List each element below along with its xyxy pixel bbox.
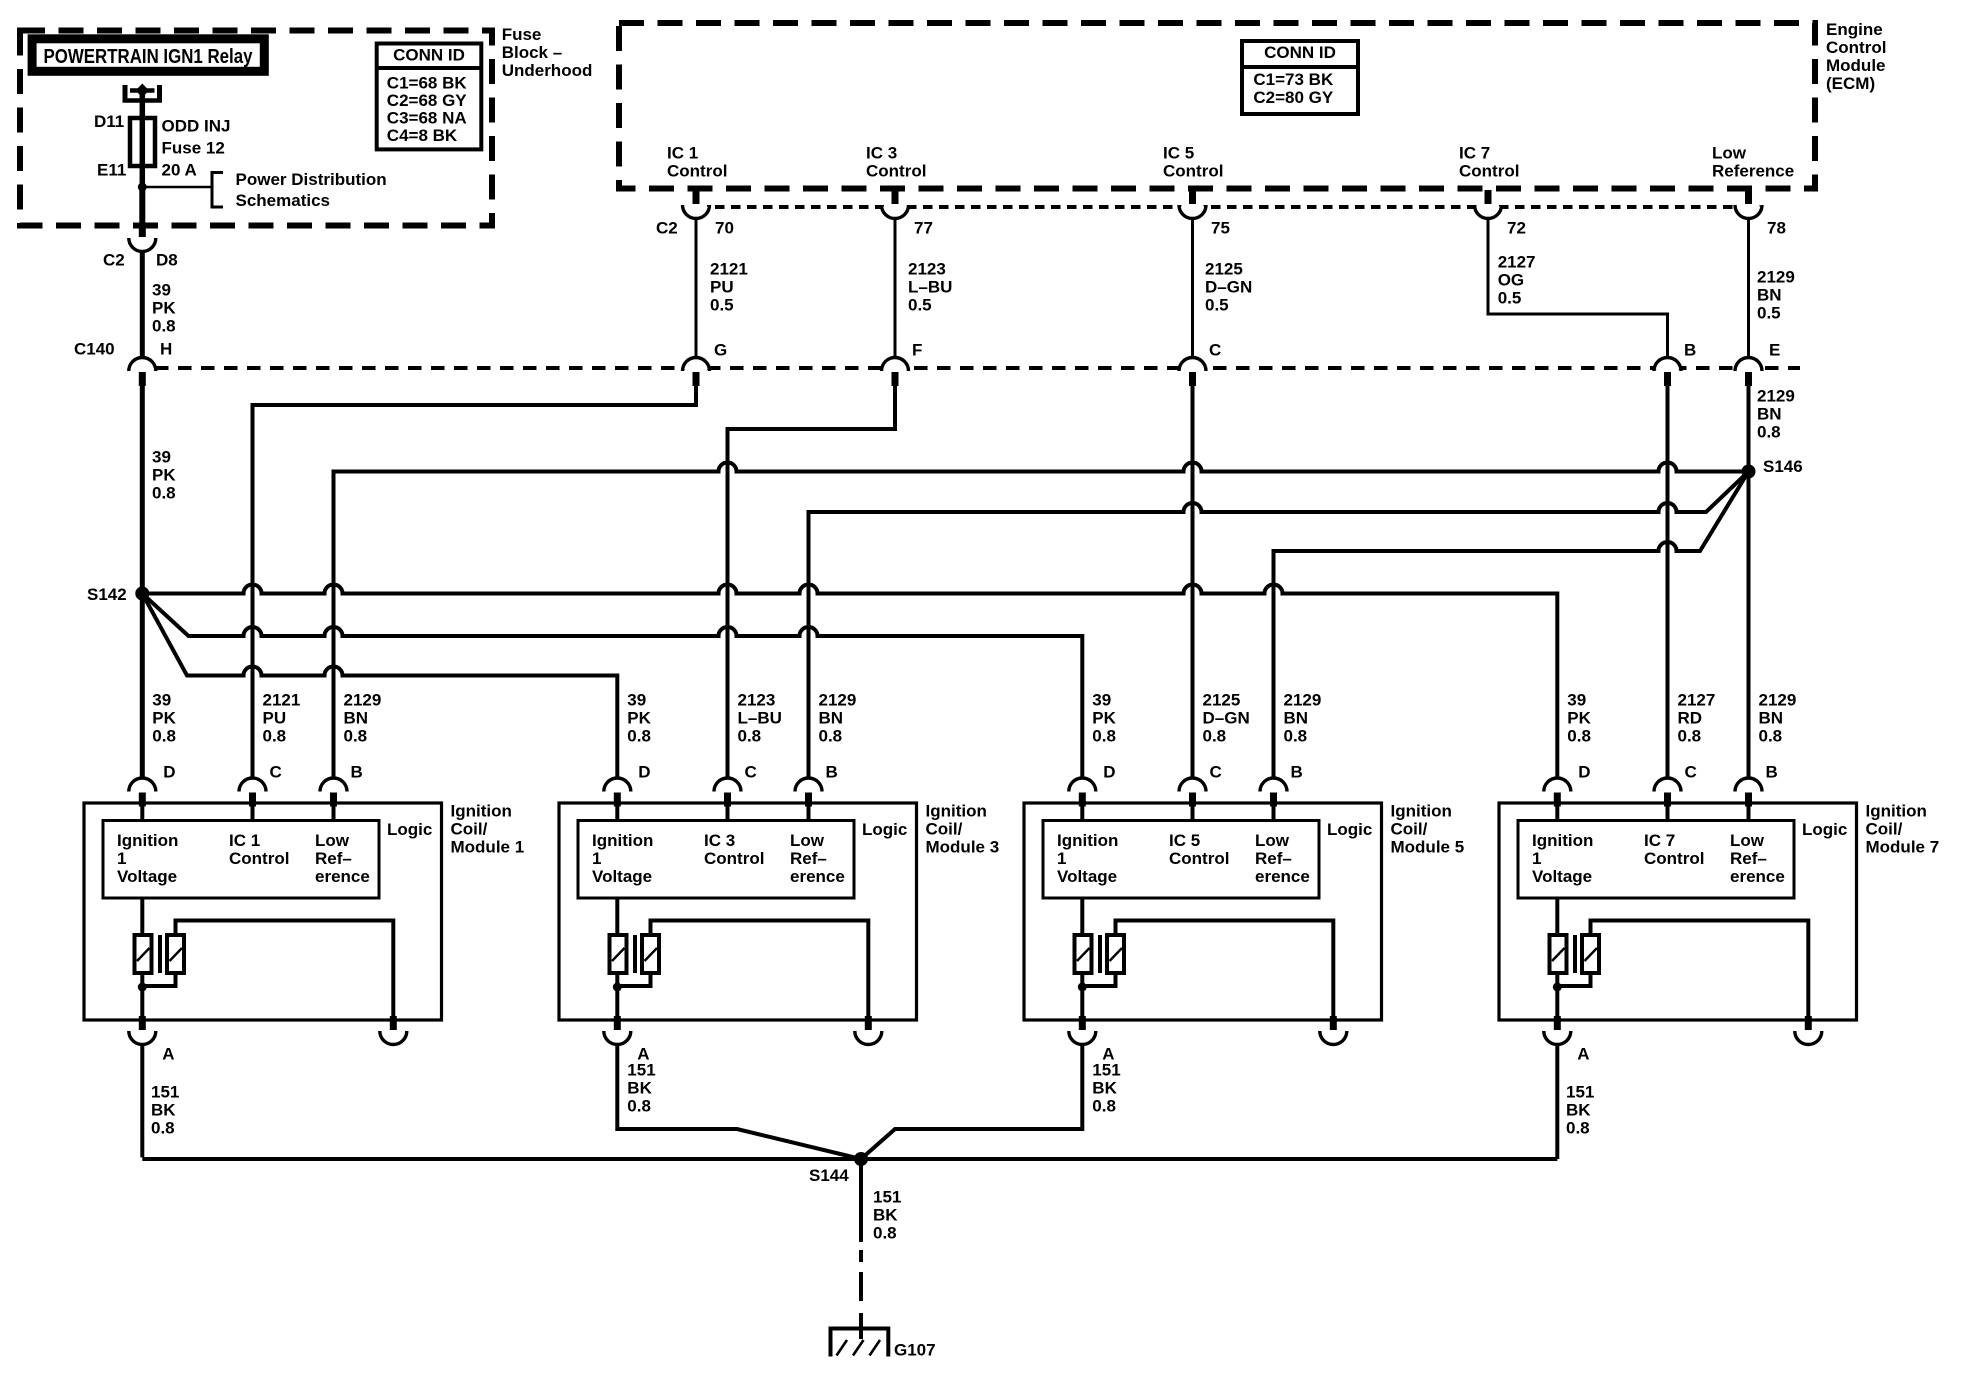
svg-text:erence: erence [315, 867, 370, 886]
ignition coil/module 7 box [1499, 803, 1857, 1020]
svg-text:Ignition: Ignition [1532, 831, 1593, 850]
svg-text:IC 7: IC 7 [1459, 143, 1490, 162]
svg-text:PK: PK [1567, 708, 1591, 727]
svg-text:C: C [1210, 762, 1222, 781]
module 3 internal junction dot [613, 983, 622, 992]
svg-text:Coil/: Coil/ [451, 819, 488, 838]
wire 151 BK 0.8 (S144 to ground) [859, 1159, 863, 1242]
svg-text:2125: 2125 [1205, 259, 1243, 278]
svg-text:Ignition: Ignition [592, 831, 653, 850]
wire 151 BK 0.8 (module1 A to S144 bus) [140, 1046, 144, 1157]
svg-text:1: 1 [117, 849, 126, 868]
svg-text:0.5: 0.5 [710, 295, 734, 314]
svg-text:Power Distribution: Power Distribution [236, 170, 387, 189]
svg-text:D8: D8 [156, 250, 178, 269]
svg-text:72: 72 [1507, 218, 1526, 237]
module 5 pin D connector [1069, 777, 1096, 791]
module 3 wire secondary to bottom-right pin [651, 921, 869, 1019]
wire 2121 PU 0.5 (IC1 to C140 G) [695, 220, 698, 356]
module 1 coil secondary winding [167, 935, 184, 973]
svg-text:Logic: Logic [1327, 820, 1372, 839]
engine control module dashed enclosure [619, 23, 1815, 189]
svg-text:BK: BK [1092, 1078, 1117, 1097]
wire 2129 BN 0.8 (S146 to module7 pin B) [1747, 472, 1751, 778]
svg-text:IC 1: IC 1 [229, 831, 260, 850]
wire 2127 RD 0.8 (C140 B to module7 pin C) [1666, 386, 1670, 777]
wire 151 BK 0.8 (module5 A to S144) [861, 1046, 1082, 1159]
svg-text:39: 39 [152, 280, 171, 299]
module 3 coil secondary winding [642, 935, 659, 973]
module 7 pin A connector [1544, 1033, 1571, 1047]
svg-text:Coil/: Coil/ [1391, 819, 1428, 838]
svg-text:BK: BK [873, 1205, 898, 1224]
svg-text:Module 7: Module 7 [1866, 837, 1940, 856]
module 1 internal pin stubs [140, 805, 144, 821]
svg-text:39: 39 [1092, 690, 1111, 709]
module 5 wire secondary to junction [1082, 973, 1115, 986]
ignition coil/module 1 box [84, 803, 442, 1020]
svg-text:Control: Control [229, 849, 289, 868]
svg-text:Reference: Reference [1712, 161, 1794, 180]
fuse block underhood dashed enclosure [20, 31, 492, 226]
svg-text:151: 151 [151, 1082, 179, 1101]
svg-text:C: C [1209, 340, 1221, 359]
module 7 wire logic to coil primary [1555, 898, 1559, 935]
CONN ID table (fuse block) [377, 44, 482, 150]
module 3 logic block box [578, 821, 854, 899]
wire 39 PK 0.8 bus (S142 to module3 pin D) [142, 594, 617, 778]
module 1 pin D connector [129, 777, 156, 791]
svg-text:C140: C140 [74, 339, 115, 358]
wire 151 BK 0.8 (module3 A to S144) [617, 1046, 861, 1159]
svg-text:BN: BN [1757, 285, 1782, 304]
svg-text:0.8: 0.8 [873, 1223, 897, 1242]
module 5 coil secondary winding [1107, 935, 1124, 973]
C140 pin G connector [683, 356, 710, 370]
svg-text:Control: Control [667, 161, 727, 180]
module 1 internal junction dot [138, 983, 147, 992]
svg-text:PK: PK [152, 298, 176, 317]
svg-text:Voltage: Voltage [592, 867, 652, 886]
svg-text:IC 5: IC 5 [1169, 831, 1200, 850]
svg-text:2121: 2121 [263, 690, 301, 709]
module 3 internal pin stubs [615, 805, 619, 821]
svg-text:Ref–: Ref– [315, 849, 352, 868]
svg-text:Logic: Logic [862, 820, 907, 839]
svg-text:0.8: 0.8 [151, 1118, 175, 1137]
svg-text:(ECM): (ECM) [1826, 74, 1875, 93]
module 3 coil core [633, 935, 637, 973]
svg-text:Low: Low [315, 831, 350, 850]
svg-text:D–GN: D–GN [1205, 277, 1252, 296]
svg-text:Logic: Logic [1802, 820, 1847, 839]
svg-text:D: D [1578, 762, 1590, 781]
svg-text:Low: Low [790, 831, 825, 850]
ECM pin 77 connector [882, 207, 909, 220]
svg-text:D: D [638, 762, 650, 781]
ECM pin 75 connector [1179, 207, 1206, 220]
svg-text:BK: BK [1566, 1100, 1591, 1119]
svg-text:C: C [270, 762, 282, 781]
svg-text:Logic: Logic [387, 820, 432, 839]
svg-text:0.8: 0.8 [152, 726, 176, 745]
module 5 internal junction dot [1078, 983, 1087, 992]
svg-text:Voltage: Voltage [117, 867, 177, 886]
svg-text:0.8: 0.8 [152, 316, 176, 335]
svg-text:Underhood: Underhood [502, 61, 593, 80]
svg-text:Ignition: Ignition [451, 801, 512, 820]
svg-text:0.8: 0.8 [627, 726, 651, 745]
module 5 wire logic to coil primary [1080, 898, 1084, 935]
svg-text:S146: S146 [1763, 457, 1803, 476]
svg-text:Ignition: Ignition [1057, 831, 1118, 850]
svg-text:G: G [714, 340, 727, 359]
svg-text:0.8: 0.8 [627, 1096, 651, 1115]
module 7 pin B connector [1735, 777, 1762, 791]
svg-text:2129: 2129 [1757, 267, 1795, 286]
module 3 pin B connector [795, 777, 822, 791]
module 7 coil primary winding [1550, 935, 1567, 973]
junction dot below fuse [138, 183, 147, 192]
module 7 coil core [1573, 935, 1577, 973]
svg-text:20 A: 20 A [162, 160, 197, 179]
svg-text:C3=68 NA: C3=68 NA [387, 108, 467, 127]
module 5 internal pin stubs [1080, 805, 1084, 821]
svg-text:C4=8 BK: C4=8 BK [387, 126, 458, 145]
svg-text:C2=68 GY: C2=68 GY [387, 91, 468, 110]
C140 pin H connector [129, 356, 156, 370]
module 5 logic block box [1043, 821, 1319, 899]
svg-text:C: C [1685, 762, 1697, 781]
wire relay to fuse (thick) [140, 93, 146, 187]
wire 2129 BN 0.8 (C140 E to splice S146) [1747, 386, 1751, 472]
module 3 pin C connector [714, 777, 741, 791]
svg-text:Control: Control [866, 161, 926, 180]
svg-text:2121: 2121 [710, 259, 748, 278]
svg-text:BN: BN [1757, 404, 1782, 423]
C140 pin C connector [1179, 356, 1206, 370]
svg-text:Ref–: Ref– [790, 849, 827, 868]
svg-text:2123: 2123 [908, 259, 946, 278]
wire 151 BK 0.8 ground bus (module1 to module7) [142, 1157, 1557, 1161]
svg-text:Ref–: Ref– [1255, 849, 1292, 868]
svg-text:Schematics: Schematics [236, 191, 331, 210]
svg-text:0.5: 0.5 [1498, 288, 1522, 307]
module 5 coil core [1098, 935, 1102, 973]
svg-text:151: 151 [627, 1060, 655, 1079]
svg-text:B: B [1684, 340, 1696, 359]
svg-text:D11: D11 [94, 112, 124, 131]
svg-text:BN: BN [344, 708, 369, 727]
ECM connector C2 dotted line [699, 205, 1760, 209]
svg-text:0.5: 0.5 [1205, 295, 1229, 314]
svg-text:151: 151 [1092, 1060, 1120, 1079]
svg-text:CONN ID: CONN ID [1264, 43, 1336, 62]
module 1 bottom-right pin connector [380, 1033, 407, 1047]
svg-text:BN: BN [1284, 708, 1309, 727]
svg-text:H: H [160, 339, 172, 358]
module 7 internal junction dot [1553, 983, 1562, 992]
svg-text:0.8: 0.8 [344, 726, 368, 745]
module 1 coil primary winding [135, 935, 152, 973]
svg-text:0.8: 0.8 [738, 726, 762, 745]
svg-text:Ignition: Ignition [926, 801, 987, 820]
svg-text:0.5: 0.5 [908, 295, 932, 314]
module 7 pin D connector [1544, 777, 1571, 791]
svg-text:C2: C2 [103, 250, 125, 269]
svg-text:RD: RD [1678, 708, 1703, 727]
svg-text:IC 7: IC 7 [1644, 831, 1675, 850]
svg-text:Control: Control [1163, 161, 1223, 180]
svg-text:A: A [1577, 1044, 1589, 1063]
svg-text:2123: 2123 [738, 690, 776, 709]
svg-text:Block –: Block – [502, 43, 562, 62]
svg-text:39: 39 [627, 690, 646, 709]
wire to power distribution reference [142, 186, 212, 189]
ECM pin 72 connector [1475, 207, 1502, 220]
svg-text:D: D [1103, 762, 1115, 781]
svg-text:Control: Control [1459, 161, 1519, 180]
svg-text:ODD INJ: ODD INJ [162, 116, 231, 135]
CONN ID table (ECM) [1242, 41, 1358, 114]
svg-text:Low: Low [1730, 831, 1765, 850]
wire 2129 BN 0.8 bus (S146 to module3 pin B) [809, 472, 1749, 778]
wire 2121 PU 0.8 (C140 G to module1 pin C) [253, 386, 697, 777]
module 7 wire secondary to junction [1557, 973, 1590, 986]
svg-text:D: D [163, 762, 175, 781]
wire 39 PK 0.8 (S142 to module1 pin D) [140, 594, 145, 778]
svg-text:B: B [1766, 762, 1778, 781]
svg-text:0.8: 0.8 [1678, 726, 1702, 745]
svg-text:IC 3: IC 3 [866, 143, 897, 162]
svg-text:2129: 2129 [1759, 690, 1797, 709]
svg-text:Coil/: Coil/ [1866, 819, 1903, 838]
svg-text:75: 75 [1211, 218, 1230, 237]
C140 pin F connector [882, 356, 909, 370]
splice S144 [854, 1152, 868, 1166]
module 1 coil core [158, 935, 162, 973]
module 3 pin D connector [604, 777, 631, 791]
wire 2125 D-GN 0.5 (IC5 to C140 C) [1191, 220, 1194, 356]
ignition coil/module 5 box [1024, 803, 1382, 1020]
svg-text:Ignition: Ignition [1866, 801, 1927, 820]
svg-text:IC 3: IC 3 [704, 831, 735, 850]
module 1 wire primary to pin A [140, 973, 144, 1019]
dashed wire to ground G107 [859, 1250, 863, 1262]
module 1 logic block box [103, 821, 379, 899]
svg-text:Module 3: Module 3 [926, 837, 1000, 856]
svg-text:A: A [162, 1044, 174, 1063]
svg-text:39: 39 [152, 447, 171, 466]
svg-text:Module: Module [1826, 56, 1886, 75]
svg-text:Ignition: Ignition [117, 831, 178, 850]
module 1 wire logic to coil primary [140, 898, 144, 935]
svg-text:BK: BK [151, 1100, 176, 1119]
svg-text:78: 78 [1767, 218, 1786, 237]
svg-text:1: 1 [1532, 849, 1541, 868]
module 7 pin C connector [1654, 777, 1681, 791]
fuse F12: ODD INJ Fuse 12 20 A [130, 118, 155, 166]
module 3 wire primary to pin A [615, 973, 619, 1019]
module 3 pin A connector [604, 1033, 631, 1047]
wire 2123 L-BU 0.8 (C140 F to module3 pin C) [728, 386, 896, 777]
svg-text:2129: 2129 [1757, 386, 1795, 405]
connector C140 dashed line [155, 366, 1800, 370]
svg-text:erence: erence [790, 867, 845, 886]
svg-text:0.8: 0.8 [1567, 726, 1591, 745]
svg-text:BN: BN [1759, 708, 1784, 727]
svg-text:0.5: 0.5 [1757, 303, 1781, 322]
ECM pin 78 connector [1735, 207, 1762, 220]
svg-text:1: 1 [592, 849, 601, 868]
svg-text:BN: BN [819, 708, 844, 727]
module 1 pin A connector [129, 1033, 156, 1047]
svg-text:2127: 2127 [1498, 252, 1536, 271]
svg-text:Control: Control [1644, 849, 1704, 868]
svg-text:Low: Low [1255, 831, 1290, 850]
svg-text:0.8: 0.8 [1284, 726, 1308, 745]
ground G107 symbol [831, 1329, 889, 1357]
module 1 wire secondary to bottom-right pin [176, 921, 394, 1019]
svg-text:77: 77 [914, 218, 933, 237]
svg-text:39: 39 [1567, 690, 1586, 709]
svg-text:Fuse: Fuse [502, 25, 542, 44]
module 3 wire logic to coil primary [615, 898, 619, 935]
svg-text:Module 1: Module 1 [451, 837, 525, 856]
svg-text:F: F [912, 340, 922, 359]
svg-text:E11: E11 [97, 160, 126, 179]
svg-text:erence: erence [1730, 867, 1785, 886]
svg-text:0.8: 0.8 [1566, 1118, 1590, 1137]
svg-text:OG: OG [1498, 270, 1524, 289]
svg-text:POWERTRAIN IGN1 Relay: POWERTRAIN IGN1 Relay [44, 46, 254, 68]
svg-text:Coil/: Coil/ [926, 819, 963, 838]
wire 39 PK 0.8 segment C2-D8 to C140-H [140, 252, 145, 357]
wire 2127 OG 0.5 (IC7 jog to C140 B) [1488, 220, 1668, 356]
svg-text:B: B [826, 762, 838, 781]
svg-text:PU: PU [263, 708, 287, 727]
module 5 wire secondary to bottom-right pin [1116, 921, 1334, 1019]
svg-text:C2: C2 [656, 218, 678, 237]
svg-text:Fuse 12: Fuse 12 [162, 138, 225, 157]
svg-text:Control: Control [1826, 38, 1886, 57]
svg-text:0.8: 0.8 [1757, 422, 1781, 441]
svg-text:PK: PK [152, 465, 176, 484]
svg-text:2129: 2129 [819, 690, 857, 709]
svg-text:Control: Control [704, 849, 764, 868]
svg-text:L–BU: L–BU [738, 708, 782, 727]
module 7 wire secondary to bottom-right pin [1591, 921, 1809, 1019]
module 1 pin B connector [320, 777, 347, 791]
svg-text:0.8: 0.8 [152, 483, 176, 502]
svg-text:PK: PK [152, 708, 176, 727]
module 7 coil secondary winding [1582, 935, 1599, 973]
module 5 pin C connector [1179, 777, 1206, 791]
svg-text:0.8: 0.8 [819, 726, 843, 745]
wire 39 PK 0.8 bus (S142 to module5 pin D) [142, 594, 1082, 778]
svg-text:D–GN: D–GN [1203, 708, 1250, 727]
svg-text:PK: PK [1092, 708, 1116, 727]
svg-text:151: 151 [1566, 1082, 1594, 1101]
module 1 pin C connector [239, 777, 266, 791]
svg-text:Module 5: Module 5 [1391, 837, 1465, 856]
wire fuse block to connector C2 (thick) [139, 187, 145, 224]
svg-text:C1=68 BK: C1=68 BK [387, 73, 468, 92]
svg-text:E: E [1769, 340, 1780, 359]
module 3 wire secondary to junction [617, 973, 650, 986]
svg-text:G107: G107 [894, 1340, 936, 1359]
module 5 coil primary winding [1075, 935, 1092, 973]
svg-text:erence: erence [1255, 867, 1310, 886]
wire 2129 BN 0.5 (Low Reference to C140 E) [1747, 220, 1750, 356]
wire 2129 BN 0.8 bus (S146 to module5 pin B) [1274, 472, 1749, 778]
wire 2123 L-BU 0.5 (IC3 to C140 F) [894, 220, 897, 356]
power distribution schematics bracket [212, 173, 223, 208]
module 3 bottom-right pin connector [855, 1033, 882, 1047]
relay contact pin symbol [123, 85, 128, 103]
svg-text:C1=73 BK: C1=73 BK [1253, 70, 1334, 89]
svg-text:0.8: 0.8 [1203, 726, 1227, 745]
wire 39 PK 0.8 bus (S142 to module7 pin D) [142, 585, 1557, 778]
svg-text:B: B [351, 762, 363, 781]
module 5 bottom-right pin connector [1320, 1033, 1347, 1047]
svg-text:CONN ID: CONN ID [393, 45, 465, 64]
svg-text:2125: 2125 [1203, 690, 1241, 709]
connector C2 pin D8 [129, 240, 156, 254]
svg-text:L–BU: L–BU [908, 277, 952, 296]
svg-text:39: 39 [152, 690, 171, 709]
svg-text:Ref–: Ref– [1730, 849, 1767, 868]
svg-text:0.8: 0.8 [263, 726, 287, 745]
wire 151 BK 0.8 (module7 A drop) [1555, 1046, 1559, 1159]
svg-text:PU: PU [710, 277, 734, 296]
svg-text:2129: 2129 [344, 690, 382, 709]
svg-text:151: 151 [873, 1187, 901, 1206]
module 7 internal pin stubs [1555, 805, 1559, 821]
svg-text:C2=80 GY: C2=80 GY [1253, 88, 1334, 107]
module 5 pin B connector [1260, 777, 1287, 791]
svg-text:Voltage: Voltage [1532, 867, 1592, 886]
relay K: POWERTRAIN IGN1 Relay title box [32, 39, 264, 72]
ECM pin 70 connector [683, 207, 710, 220]
module 5 pin A connector [1069, 1033, 1096, 1047]
module 7 bottom-right pin connector [1795, 1033, 1822, 1047]
svg-text:0.8: 0.8 [1092, 1096, 1116, 1115]
svg-text:PK: PK [627, 708, 651, 727]
svg-text:S142: S142 [87, 585, 127, 604]
svg-text:70: 70 [715, 218, 734, 237]
module 7 wire primary to pin A [1555, 973, 1559, 1019]
svg-text:IC 5: IC 5 [1163, 143, 1194, 162]
C140 pin E connector [1735, 356, 1762, 370]
svg-text:1: 1 [1057, 849, 1066, 868]
svg-text:Ignition: Ignition [1391, 801, 1452, 820]
svg-text:BK: BK [627, 1078, 652, 1097]
svg-text:0.8: 0.8 [1759, 726, 1783, 745]
module 3 coil primary winding [610, 935, 627, 973]
svg-text:Control: Control [1169, 849, 1229, 868]
wire 2129 BN 0.8 bus (S146 to module1 pin B) [334, 463, 1749, 778]
svg-text:Engine: Engine [1826, 20, 1883, 39]
module 5 wire primary to pin A [1080, 973, 1084, 1019]
svg-text:2129: 2129 [1284, 690, 1322, 709]
svg-text:IC 1: IC 1 [667, 143, 698, 162]
svg-text:0.8: 0.8 [1092, 726, 1116, 745]
module 1 wire secondary to junction [142, 973, 175, 986]
svg-text:2127: 2127 [1678, 690, 1716, 709]
svg-text:Voltage: Voltage [1057, 867, 1117, 886]
svg-text:S144: S144 [809, 1166, 849, 1185]
